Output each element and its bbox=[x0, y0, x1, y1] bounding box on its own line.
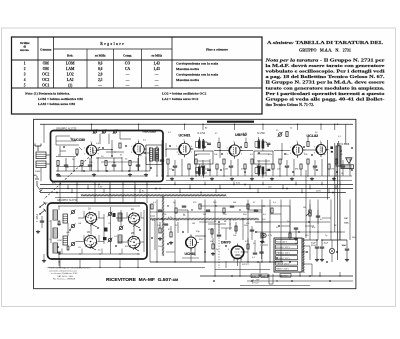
bus junction dots bbox=[59, 184, 340, 193]
bus wire bottom 2 bbox=[48, 267, 206, 269]
svg-text:1,43: 1,43 bbox=[154, 61, 160, 65]
svg-text:a pag. 18 del Bollettino Tecni: a pag. 18 del Bollettino Tecnico Geloso … bbox=[266, 74, 385, 79]
tube V1 UCC85 triode a bbox=[86, 143, 99, 158]
trimmer CV2 bbox=[102, 129, 107, 134]
AM padder blob c bbox=[113, 213, 116, 217]
mid band labels bbox=[52, 181, 321, 192]
svg-text:Gamma: Gamma bbox=[40, 48, 52, 52]
svg-text:3: 3 bbox=[290, 153, 291, 155]
ground filter a bbox=[315, 258, 319, 262]
svg-text:1: 1 bbox=[176, 146, 177, 148]
svg-text:GRUPPO N.2731: GRUPPO N.2731 bbox=[57, 198, 78, 202]
pilot lamp LP2 bbox=[262, 233, 266, 237]
tube V5 UCH81 converter bbox=[186, 235, 200, 251]
svg-text:7: 7 bbox=[191, 152, 192, 154]
svg-text:Corrispondenza con la scala: Corrispondenza con la scala bbox=[176, 73, 218, 77]
AM coil L2 bbox=[53, 228, 58, 238]
svg-text:Massima uscita: Massima uscita bbox=[176, 67, 199, 71]
AVC arrow bbox=[261, 239, 265, 243]
svg-text:Corrispondenza con la scala: Corrispondenza con la scala bbox=[176, 61, 218, 65]
AM left column extra parts bbox=[49, 206, 69, 253]
svg-text:DM70: DM70 bbox=[221, 241, 231, 245]
svg-text:Regolare: Regolare bbox=[100, 42, 125, 46]
svg-text:350V: 350V bbox=[311, 245, 316, 247]
svg-text:vobbulato e oscilloscopio. Per: vobbulato e oscilloscopio. Per i dettagl… bbox=[266, 69, 386, 74]
svg-text:9: 9 bbox=[138, 140, 139, 142]
AM coil L4 bbox=[63, 214, 68, 223]
svg-text:CA: CA bbox=[125, 67, 131, 71]
detector diode wires bbox=[248, 205, 298, 244]
svg-text:Nota: (1) Pretarata in fabbric: Nota: (1) Pretarata in fabbrica. bbox=[24, 92, 70, 96]
lower half scattered labels bbox=[152, 215, 356, 259]
svg-text:2: 2 bbox=[24, 67, 26, 71]
svg-text:1: 1 bbox=[314, 147, 315, 149]
svg-text:OM: OM bbox=[43, 61, 50, 65]
svg-text:1B: 1B bbox=[87, 232, 90, 234]
shielded cable run 1 bbox=[81, 194, 226, 196]
oscillator value labels bbox=[157, 220, 256, 266]
AM coil L1 bbox=[53, 210, 58, 220]
AM box ground stubs bbox=[59, 259, 138, 268]
svg-text:6,3V: 6,3V bbox=[98, 186, 103, 188]
svg-text:OC2: OC2 bbox=[42, 78, 49, 82]
svg-text:1,43: 1,43 bbox=[154, 67, 160, 71]
AM padder blob a bbox=[104, 228, 108, 232]
AM padder blob b bbox=[103, 237, 107, 240]
rectifier wires bbox=[302, 240, 347, 276]
svg-text:ROSSO 125 V: ROSSO 125 V bbox=[277, 258, 291, 260]
svg-text:2M: 2M bbox=[203, 214, 206, 216]
svg-text:—: — bbox=[125, 78, 130, 82]
svg-text:Nota per la taratura - Il Grup: Nota per la taratura - Il Gruppo N. 2731… bbox=[264, 58, 385, 63]
svg-text:250V: 250V bbox=[316, 191, 321, 193]
tuning gang dashed link bbox=[44, 147, 100, 199]
IF takeoff cluster bbox=[208, 218, 254, 240]
band switch wafer S1c bbox=[84, 235, 98, 249]
grid coupling wires IF strip bbox=[165, 143, 316, 160]
bus wire B+ lower bbox=[40, 192, 346, 194]
svg-text:LA2: LA2 bbox=[67, 78, 74, 82]
svg-text:GRUPPO N.2723: GRUPPO N.2723 bbox=[56, 126, 77, 130]
lower cluster labels bbox=[153, 202, 277, 216]
bottom bus stubs bbox=[215, 262, 340, 276]
label filter caps bbox=[311, 243, 329, 248]
bus wire bottom 5 bbox=[240, 285, 310, 287]
svg-text:N.5808: N.5808 bbox=[342, 143, 350, 146]
tube V4 UCL82 pentode bbox=[316, 142, 329, 157]
capacitor phono bbox=[40, 216, 44, 228]
wire DM70 bottom bbox=[215, 269, 270, 271]
trimmer CV1 bbox=[93, 129, 98, 134]
svg-text:7: 7 bbox=[98, 153, 99, 155]
svg-text:40μF: 40μF bbox=[324, 243, 330, 245]
top feed verticals bbox=[92, 124, 346, 144]
bus wire cathode return bbox=[55, 197, 330, 199]
svg-text:succes.: succes. bbox=[20, 48, 29, 52]
svg-text:su Licenza Pubblicaz. N.67: su Licenza Pubblicaz. N.67 bbox=[51, 273, 78, 275]
svg-text:1M: 1M bbox=[331, 169, 334, 171]
svg-text:9: 9 bbox=[320, 141, 321, 143]
trimmer detector bbox=[278, 132, 283, 137]
svg-text:A RETE: A RETE bbox=[281, 275, 288, 278]
svg-text:1: 1 bbox=[24, 61, 26, 65]
pilot lamp LP1 bbox=[329, 240, 334, 262]
svg-text:AVC: AVC bbox=[52, 181, 57, 184]
ground terminal left bbox=[36, 230, 40, 234]
svg-text:300Ω: 300Ω bbox=[35, 171, 41, 173]
svg-text:½UCC85: ½UCC85 bbox=[142, 129, 156, 133]
svg-text:Riv. Tecnica - 1939628: Riv. Tecnica - 1939628 bbox=[53, 279, 76, 281]
bus wire bottom 3 bbox=[200, 275, 353, 277]
bottom bus junction dots bbox=[156, 261, 340, 276]
band switch wafer S1b bbox=[128, 212, 141, 225]
AM module wires bbox=[51, 206, 144, 255]
FM box internal wires bbox=[56, 132, 150, 177]
IF strip lower components bbox=[166, 159, 352, 181]
tube V4 UCL82 triode bbox=[292, 142, 305, 157]
svg-text:VERDE 160 V: VERDE 160 V bbox=[277, 263, 291, 265]
antenna matching coil La bbox=[36, 152, 46, 159]
svg-text:N.1377: N.1377 bbox=[242, 264, 250, 266]
B+ vertical feed wires bbox=[328, 140, 340, 260]
wires antenna to FM box bbox=[35, 155, 51, 173]
power transformer winding labels bbox=[277, 242, 291, 271]
svg-text:N.1790: N.1790 bbox=[257, 132, 265, 135]
svg-text:LOM: LOM bbox=[66, 61, 75, 65]
AM coil L9 bbox=[118, 235, 122, 243]
svg-text:A sinistra: TABELLA DI TARATUR: A sinistra: TABELLA DI TARATURA DEL bbox=[267, 40, 383, 45]
mid band stubs bbox=[60, 182, 340, 204]
svg-text:N.1791: N.1791 bbox=[198, 132, 206, 135]
svg-text:5: 5 bbox=[24, 83, 26, 87]
AVC return wires bbox=[150, 212, 345, 233]
svg-text:Massima uscita: Massima uscita bbox=[176, 78, 199, 82]
tube V3 UBF80 bbox=[229, 142, 243, 158]
svg-text:OC2: OC2 bbox=[42, 73, 49, 77]
svg-text:LO2: LO2 bbox=[67, 73, 74, 77]
AM coil L8 bbox=[118, 213, 122, 221]
svg-text:LAM: LAM bbox=[66, 67, 75, 71]
label MAT MAA bbox=[344, 217, 349, 225]
phono input terminals bbox=[39, 202, 47, 215]
svg-text:1: 1 bbox=[290, 147, 291, 149]
resistor R20 bbox=[286, 132, 288, 137]
svg-text:UCL82: UCL82 bbox=[307, 134, 319, 138]
svg-text:—: — bbox=[154, 73, 159, 77]
filter capacitor C50a bbox=[315, 239, 319, 258]
svg-text:presente estratto tecnico art.: presente estratto tecnico art. bbox=[50, 269, 78, 272]
shielded cable vertical bbox=[162, 196, 164, 256]
svg-text:1A: 1A bbox=[88, 208, 91, 211]
svg-text:LAM = bobina aereo OM: LAM = bobina aereo OM bbox=[38, 102, 76, 106]
svg-text:1: 1 bbox=[227, 148, 228, 150]
AM antenna terminal bbox=[34, 174, 42, 192]
bus wire AVC bbox=[40, 184, 353, 186]
AM module value labels bbox=[57, 214, 129, 252]
svg-text:2,5: 2,5 bbox=[98, 78, 103, 82]
svg-text:Bob.: Bob. bbox=[67, 54, 73, 58]
svg-text:Il Gruppo N. 2731 per la M.d.A: Il Gruppo N. 2731 per la M.d.A. deve ess… bbox=[266, 80, 385, 85]
mains selector bbox=[251, 274, 291, 285]
bus wire top rail bbox=[40, 123, 353, 125]
volume potentiometer bbox=[303, 204, 311, 216]
svg-text:BLU 140 V: BLU 140 V bbox=[277, 242, 288, 244]
svg-text:6: 6 bbox=[98, 147, 99, 149]
svg-text:UCH81: UCH81 bbox=[185, 252, 196, 256]
svg-text:0,6: 0,6 bbox=[98, 67, 103, 71]
svg-text:7: 7 bbox=[327, 153, 328, 155]
top area labels bbox=[168, 127, 352, 176]
svg-text:VIBR: VIBR bbox=[262, 276, 267, 278]
svg-text:PARALL 110 V: PARALL 110 V bbox=[277, 252, 291, 255]
svg-text:Fino a ottenere: Fino a ottenere bbox=[206, 48, 228, 52]
bus wire bottom 4 bbox=[247, 280, 353, 282]
svg-text:1M: 1M bbox=[192, 223, 195, 225]
loudspeaker LS1 bbox=[341, 158, 354, 169]
table frame bbox=[12, 37, 263, 114]
svg-text:9: 9 bbox=[234, 141, 235, 143]
IF strip value labels bbox=[169, 154, 353, 170]
svg-text:1M: 1M bbox=[303, 207, 306, 209]
lower component cluster row bbox=[151, 204, 273, 213]
tube pin numbers bbox=[84, 140, 328, 156]
mains plug wires bbox=[269, 274, 278, 284]
bus wire bottom 1 bbox=[150, 261, 283, 263]
svg-text:4: 4 bbox=[24, 78, 26, 82]
svg-text:0,6: 0,6 bbox=[98, 61, 103, 65]
AM coil L5 bbox=[63, 236, 68, 245]
svg-text:3: 3 bbox=[227, 154, 228, 156]
svg-text:9: 9 bbox=[91, 142, 92, 144]
filter capacitor C50b bbox=[320, 239, 324, 258]
power transformer winding panel bbox=[274, 238, 302, 272]
coupling capacitor blob a bbox=[330, 146, 333, 149]
svg-text:6V 12V: 6V 12V bbox=[252, 282, 259, 284]
AM coil L3 bbox=[53, 243, 58, 253]
ground filter c bbox=[345, 258, 349, 262]
svg-text:UCH81: UCH81 bbox=[179, 134, 191, 138]
AM trimmers bbox=[71, 210, 124, 247]
svg-text:3: 3 bbox=[314, 153, 315, 155]
svg-text:OM: OM bbox=[43, 67, 50, 71]
shielded cable run 2 bbox=[150, 218, 259, 220]
svg-text:su MHz: su MHz bbox=[151, 54, 162, 58]
svg-text:2,2M: 2,2M bbox=[223, 169, 228, 171]
svg-text:LAM: LAM bbox=[57, 223, 62, 226]
IF can T2 N.1791 bbox=[195, 137, 214, 178]
wire antenna feed vertical bbox=[41, 124, 44, 181]
svg-text:Per i particolari operativi in: Per i particolari operativi inerenti a q… bbox=[266, 91, 385, 96]
oscillator section components bbox=[155, 220, 264, 268]
svg-text:2,0: 2,0 bbox=[98, 73, 103, 77]
svg-text:GRUPPO M.d.A. N. 2731: GRUPPO M.d.A. N. 2731 bbox=[299, 48, 351, 53]
vertical wires lower half bbox=[157, 200, 350, 263]
svg-text:MAA: MAA bbox=[344, 222, 349, 225]
svg-text:9: 9 bbox=[297, 141, 298, 143]
IF can T3 N.1790 bbox=[254, 137, 273, 178]
tone capacitor bbox=[316, 210, 323, 224]
oscillator extra wires bbox=[150, 204, 268, 262]
svg-text:NERO 220 V: NERO 220 V bbox=[277, 269, 290, 271]
screen dropping resistors bbox=[218, 137, 309, 148]
svg-text:CO: CO bbox=[125, 61, 131, 65]
AM tuner module GRUPPO N.2731 bbox=[48, 203, 148, 259]
svg-text:6: 6 bbox=[145, 146, 146, 148]
FM box components row bbox=[56, 143, 148, 177]
top rail junction dots bbox=[91, 124, 338, 125]
antenna matching coil Lb bbox=[36, 161, 46, 168]
band switch wafer S1d bbox=[127, 236, 140, 249]
svg-text:1: 1 bbox=[84, 147, 85, 149]
svg-text:su + MV: su + MV bbox=[252, 280, 260, 282]
tube V2 UCH81 bbox=[179, 141, 193, 158]
svg-text:—: — bbox=[154, 78, 159, 82]
svg-text:7: 7 bbox=[241, 154, 242, 156]
svg-text:LOM: LOM bbox=[57, 240, 62, 242]
output transformer T4 bbox=[336, 141, 341, 166]
svg-text:—: — bbox=[154, 83, 159, 87]
tube V6 DM70 tuning indicator bbox=[231, 244, 244, 262]
svg-text:—: — bbox=[125, 83, 130, 87]
ground near note bbox=[42, 254, 60, 266]
svg-text:OC1: OC1 bbox=[42, 83, 49, 87]
tube V1 UCC85 triode b bbox=[133, 141, 147, 157]
svg-text:1M: 1M bbox=[210, 241, 213, 243]
svg-text:6: 6 bbox=[191, 146, 192, 148]
svg-text:LA2 = bobina aereo OC2: LA2 = bobina aereo OC2 bbox=[162, 97, 199, 101]
svg-text:2A: 2A bbox=[131, 208, 134, 211]
svg-text:1: 1 bbox=[131, 146, 132, 148]
svg-text:3: 3 bbox=[84, 153, 85, 155]
svg-text:su MHz: su MHz bbox=[95, 54, 106, 58]
transformer core hatching bbox=[302, 238, 304, 273]
FM dipole antenna input bbox=[35, 144, 41, 152]
filter capacitor C51 bbox=[342, 242, 350, 258]
wire transformer primary feed bbox=[200, 170, 306, 238]
svg-text:RICEVITORE MA-MF G.507-AM: RICEVITORE MA-MF G.507-AM bbox=[106, 277, 178, 282]
svg-text:—: — bbox=[97, 83, 102, 87]
trimmer CV3 bbox=[113, 129, 118, 134]
FM tuner module GRUPPO N.2723 bbox=[51, 131, 164, 182]
ground filter b bbox=[320, 258, 324, 262]
shield partition dashed bbox=[218, 224, 220, 268]
copyright note bbox=[50, 267, 91, 281]
table header lines bbox=[12, 59, 263, 61]
svg-text:ALIM: ALIM bbox=[252, 275, 257, 278]
svg-text:tino Tecnico Geloso N. 71-72.: tino Tecnico Geloso N. 71-72. bbox=[266, 102, 315, 107]
svg-text:CAT. RCS - GEL: CAT. RCS - GEL bbox=[57, 275, 74, 278]
AM mid vertical wire bbox=[110, 207, 112, 254]
schematic frame bbox=[34, 119, 356, 288]
svg-text:ROSSO 125 V: ROSSO 125 V bbox=[277, 247, 291, 249]
svg-text:—: — bbox=[125, 73, 130, 77]
svg-text:9: 9 bbox=[184, 140, 185, 142]
svg-text:Comp.: Comp. bbox=[123, 54, 132, 58]
svg-text:LO2 = bobina oscillatrice OC2: LO2 = bobina oscillatrice OC2 bbox=[162, 92, 207, 96]
svg-text:50μF: 50μF bbox=[342, 245, 348, 247]
svg-text:3: 3 bbox=[24, 73, 26, 77]
band switch wafer S1a bbox=[85, 212, 98, 225]
svg-text:Gruppo si veda alle pagg. 40-4: Gruppo si veda alle pagg. 40-41 del Boll… bbox=[266, 96, 386, 101]
svg-text:tarato con generatore modulato: tarato con generatore modulato in ampiez… bbox=[266, 85, 385, 90]
svg-text:LOM = bobina oscillatrice OM: LOM = bobina oscillatrice OM bbox=[38, 97, 84, 101]
coupling components before UCH81 bbox=[156, 140, 164, 177]
svg-text:CO: CO bbox=[78, 247, 82, 249]
svg-text:la M.d.F. dovrà essere tarato: la M.d.F. dovrà essere tarato con genera… bbox=[266, 63, 385, 68]
FM box value labels bbox=[56, 138, 147, 169]
coupling capacitor blob b bbox=[331, 151, 333, 153]
svg-text:6: 6 bbox=[327, 147, 328, 149]
table column lines bbox=[37, 37, 39, 88]
B+ rail heavy segment bbox=[207, 121, 254, 123]
junction speck scatter bbox=[56, 145, 353, 282]
IF can T1 10.7 MHz bbox=[146, 145, 162, 165]
bus wire heater bbox=[40, 188, 353, 190]
svg-text:3: 3 bbox=[131, 152, 132, 154]
svg-text:MAT: MAT bbox=[344, 217, 349, 220]
svg-text:Diritti riserv. degli art. ed: Diritti riserv. degli art. ed schemi di … bbox=[50, 267, 91, 270]
